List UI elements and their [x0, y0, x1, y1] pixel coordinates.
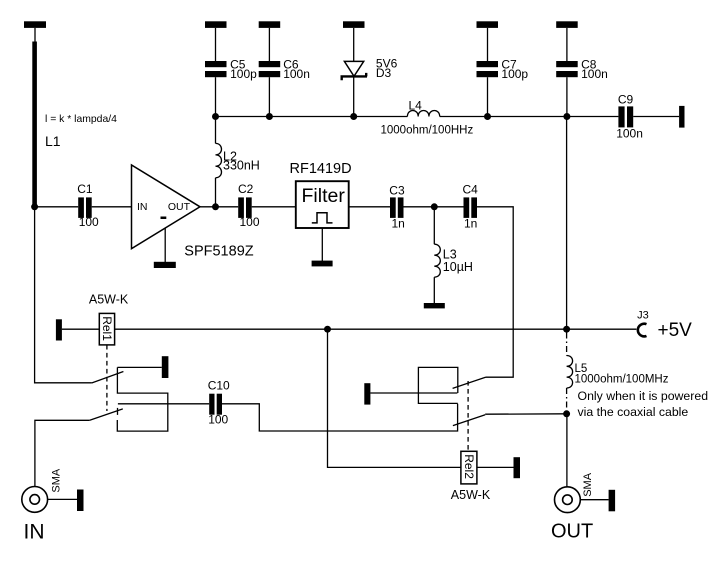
svg-text:J3: J3 [637, 309, 649, 321]
node C3/C4/L3 junction [431, 203, 438, 210]
ground (IN right bar) [77, 490, 84, 512]
ground (antenna top bar) [24, 21, 46, 28]
wire [215, 77, 217, 116]
capacitor C10 [118, 379, 230, 427]
svg-text:10µH: 10µH [443, 260, 473, 274]
svg-text:100p: 100p [501, 67, 528, 81]
svg-text:+5V: +5V [658, 320, 693, 341]
wire (C4 to Rel2 upper pivot) [477, 207, 513, 377]
capacitor C2 [238, 182, 260, 229]
ground (amp) [154, 262, 176, 268]
svg-text:Filter: Filter [302, 185, 346, 207]
svg-text:C10: C10 [208, 379, 230, 393]
svg-text:OUT: OUT [168, 201, 191, 213]
svg-text:SMA: SMA [50, 468, 62, 493]
relay coil Rel1 [89, 293, 129, 345]
wire [349, 206, 390, 208]
switch blade (Rel1 pole 1) [92, 372, 124, 384]
wire (top rail right) [440, 116, 619, 118]
node antenna/C1 junction [31, 203, 38, 210]
wire (Rel2 dashed link) [467, 381, 469, 451]
wire [404, 206, 464, 208]
wire (amp ground stub) [164, 228, 166, 262]
wire [92, 206, 132, 208]
wire [268, 28, 270, 61]
svg-text:SPF5189Z: SPF5189Z [184, 244, 253, 260]
wire (Rel1 pole2 NO stub) [117, 408, 119, 415]
capacitor C5 [205, 57, 257, 81]
ground (Rel2 right bar) [514, 457, 521, 478]
inductor L5 [567, 356, 669, 388]
switch blade (Rel1 pole 2) [90, 409, 123, 420]
svg-text:via the coaxial cable: via the coaxial cable [578, 405, 689, 419]
svg-text:D3: D3 [376, 66, 392, 80]
svg-text:100: 100 [79, 215, 99, 229]
wire [487, 28, 489, 61]
wire [566, 77, 568, 116]
svg-text:IN: IN [137, 201, 148, 213]
capacitor C1 [77, 182, 99, 229]
wire (NC contact to ground) [117, 366, 161, 368]
wire [62, 328, 99, 330]
wire [633, 116, 679, 118]
svg-text:1000ohm/100HHz: 1000ohm/100HHz [381, 124, 474, 136]
svg-text:Rel2: Rel2 [462, 454, 476, 479]
switch blade (Rel2 pole 1) [453, 377, 486, 388]
ground (C7 top bar) [477, 21, 499, 28]
wire (L5 dash-dot top) [566, 333, 568, 356]
svg-text:100: 100 [240, 215, 260, 229]
capacitor C8 [556, 57, 608, 81]
svg-text:1000ohm/100MHz: 1000ohm/100MHz [575, 374, 669, 386]
wire (ground to Rel2 NC contact) [370, 392, 457, 394]
wire (Rel1 dashed link) [106, 345, 108, 411]
connector IN SMA [22, 468, 77, 512]
inductor L3 [434, 207, 473, 303]
wire (L5 dash-dot bottom) [566, 388, 568, 411]
svg-text:1n: 1n [392, 217, 405, 231]
node L2/OUT junction [212, 203, 219, 210]
ground (C5 top bar) [205, 21, 227, 28]
ground (C6 top bar) [259, 21, 281, 28]
ground (D3 top bar) [343, 21, 365, 28]
svg-text:IN: IN [24, 520, 45, 543]
node C7/rail junction [484, 113, 491, 120]
wire [566, 28, 568, 61]
svg-text:l = k * lampda/4: l = k * lampda/4 [45, 114, 117, 125]
svg-text:C3: C3 [389, 184, 405, 198]
svg-text:L4: L4 [409, 98, 423, 112]
wire [215, 28, 217, 61]
svg-text:C4: C4 [463, 183, 479, 197]
ground (Rel2 switch bar) [364, 383, 370, 404]
ground (Rel1 switch bar) [162, 356, 169, 378]
svg-text:RF1419D: RF1419D [290, 161, 352, 177]
wire (down to OUT SMA) [566, 414, 568, 487]
svg-text:100n: 100n [581, 67, 608, 81]
wire (top rail) [216, 116, 408, 118]
svg-text:Only when it is powered: Only when it is powered [578, 389, 709, 403]
node rail/Rel2 coil junction [324, 326, 331, 333]
svg-text:1n: 1n [464, 217, 477, 231]
capacitor C9 [616, 93, 643, 141]
inductor L2 [216, 120, 260, 204]
svg-text:100p: 100p [230, 67, 257, 81]
svg-text:330nH: 330nH [223, 159, 260, 173]
svg-text:100n: 100n [616, 127, 643, 141]
ground (L3) [424, 303, 445, 308]
wire [353, 76, 355, 116]
svg-text:SMA: SMA [582, 472, 594, 497]
svg-text:Rel1: Rel1 [100, 316, 114, 341]
svg-text:C9: C9 [618, 93, 634, 107]
wire [34, 28, 36, 42]
wire (IN to switch 2 pivot) [35, 420, 90, 486]
wire (Rel2 coil to ground) [477, 466, 514, 468]
svg-text:A5W-K: A5W-K [89, 293, 129, 307]
connector J3 [637, 309, 692, 341]
capacitor C6 [259, 57, 310, 81]
svg-text:C2: C2 [238, 182, 254, 196]
filter U2 RF1419D [290, 161, 352, 228]
antenna L1 [32, 42, 37, 207]
zener diode D3 5V6 [341, 56, 398, 80]
ground (C9 right bar) [679, 106, 684, 128]
capacitor C7 [477, 57, 529, 81]
relay coil Rel2 [451, 451, 491, 502]
node rail/C8/L5 junction [563, 326, 570, 333]
capacitor C4 [463, 183, 479, 231]
op-amp U1 SPF5189Z [132, 165, 254, 260]
node C8/rail junction [563, 113, 570, 120]
wire [252, 206, 296, 208]
svg-text:A5W-K: A5W-K [451, 488, 491, 502]
wire (C10 to Rel2 lower contact) [222, 404, 458, 431]
wire (antenna column down to switch 1 pivot) [35, 207, 92, 383]
ground (OUT right bar) [609, 490, 616, 512]
capacitor C3 [389, 184, 405, 231]
wire [353, 28, 355, 62]
node C6/rail junction [266, 113, 273, 120]
wire (Rel1 contact bracket) [117, 367, 168, 431]
wire (+5V rail) [115, 328, 637, 330]
wire (Rel2 contact bracket) [418, 367, 457, 403]
node L5/OUT junction [563, 410, 570, 417]
svg-text:C1: C1 [77, 182, 93, 196]
svg-text:OUT: OUT [551, 521, 593, 543]
wire (rail junction to Rel2 coil) [328, 329, 461, 467]
wire [268, 77, 270, 116]
wire (filter ground stub) [321, 228, 323, 261]
wire [200, 206, 238, 208]
wire (Rel2 pole2 pivot to OUT node) [485, 413, 566, 415]
wire [487, 77, 489, 116]
ground (C8 top bar) [556, 21, 578, 28]
node D3/rail junction [350, 113, 357, 120]
ground (+5V rail left bar) [56, 319, 62, 340]
switch blade (Rel2 pole 2) [453, 415, 485, 426]
svg-text:100: 100 [208, 413, 228, 427]
wire (C8 column down to +5V rail) [566, 117, 568, 330]
ground (filter) [312, 261, 333, 267]
node C5/rail junction [212, 113, 219, 120]
wire [35, 206, 79, 208]
connector OUT SMA [555, 472, 609, 512]
svg-text:L1: L1 [45, 133, 61, 149]
svg-text:100n: 100n [283, 67, 310, 81]
inductor L4 [381, 98, 474, 136]
